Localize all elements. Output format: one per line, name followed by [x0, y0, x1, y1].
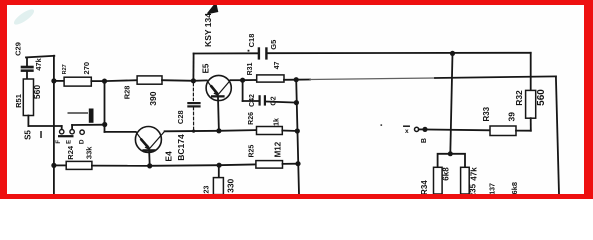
resistor R34: [434, 167, 443, 194]
wire R51 bottom to switch F: [28, 125, 61, 127]
terminal B open circle: [415, 127, 419, 131]
svg-text:BC174: BC174: [176, 134, 186, 161]
wire E4 collector row to E5 emitter node: [165, 130, 219, 133]
node C42 right junction: [294, 100, 299, 105]
svg-text:F: F: [56, 140, 62, 144]
svg-text:KSY 134: KSY 134: [203, 13, 213, 47]
wire long right horizontal east part: [435, 76, 556, 78]
svg-text:560: 560: [32, 85, 42, 99]
wire R27 left stub: [54, 80, 64, 82]
node bottom wire R23 junction: [217, 163, 222, 168]
node C28 on collector wire: [192, 130, 195, 133]
node R31 right junction: [294, 77, 299, 82]
wire middle vertical rail x=104.5: [104, 81, 106, 132]
wire right-bottom rail: [556, 76, 559, 194]
wire R28 right to E5 base node: [162, 79, 193, 82]
svg-text:E: E: [67, 140, 73, 144]
border frame left: [0, 0, 7, 199]
resistor R27: [64, 77, 91, 86]
wire top wire corner down to E5 base node: [192, 54, 194, 81]
wire long right horizontal from R31 node: [296, 79, 310, 81]
svg-text:R33: R33: [482, 106, 491, 121]
svg-text:6k8: 6k8: [442, 167, 451, 181]
capacitor C29: [21, 66, 34, 72]
resistor R32: [526, 90, 536, 118]
node bottom-left junction: [51, 163, 56, 168]
svg-text:39: 39: [507, 112, 517, 122]
svg-text:390: 390: [148, 91, 158, 105]
wire top-left from C29 top to left rail: [26, 56, 54, 58]
svg-text:137: 137: [490, 183, 497, 195]
resistor R25: [256, 161, 283, 169]
wire rail from top node down to R34 R35: [450, 53, 452, 153]
capacitor C28 dashed bottom lead: [193, 107, 195, 130]
node R34 R35 branch junction: [448, 151, 453, 156]
wire E5 emitter lead: [217, 98, 220, 131]
svg-text:C29: C29: [13, 42, 22, 56]
wire R25 right stub: [283, 163, 299, 165]
svg-text:C42: C42: [249, 94, 256, 107]
svg-text:R34: R34: [420, 180, 429, 195]
resistor R51: [23, 79, 33, 116]
wire R24 to E4 emitter node: [92, 165, 150, 167]
svg-text:G5: G5: [269, 40, 278, 50]
svg-text:R24: R24: [66, 145, 75, 160]
wire R32 top rail: [530, 53, 532, 91]
transistor E4: [135, 127, 164, 153]
wire E4 emitter lead: [148, 152, 151, 166]
wire branch to R34: [438, 154, 451, 168]
svg-text:D: D: [79, 139, 86, 144]
resistor R33: [490, 126, 516, 136]
wire top horizontal to C18: [194, 52, 258, 54]
node E4 emitter junction: [147, 163, 152, 168]
capacitor C28: [187, 102, 200, 108]
wire R23 stub: [218, 165, 220, 177]
wire R31 right stub: [284, 79, 296, 81]
node terminal B dot: [422, 127, 427, 132]
wire B terminal to R33: [419, 128, 490, 131]
svg-text:1k: 1k: [274, 118, 281, 126]
svg-text:47: 47: [274, 62, 281, 70]
wire R31 left stub: [243, 79, 257, 81]
C18 polarity dot: [248, 50, 250, 52]
svg-text:33k: 33k: [85, 146, 94, 159]
svg-text:560: 560: [536, 89, 547, 106]
svg-text:R31: R31: [247, 62, 254, 75]
resistor R31: [257, 75, 284, 82]
wire R25 left stub: [219, 163, 256, 166]
svg-text:270: 270: [82, 62, 91, 75]
wire C42 left stub: [243, 100, 259, 102]
switch S5 bridge bar: [58, 135, 74, 137]
wire E contact to E4 base rail: [72, 124, 105, 126]
wire E5 collector down to C42: [242, 80, 244, 101]
wire C29 to R51: [26, 72, 28, 79]
wire left vertical rail x=54: [53, 56, 55, 194]
resistor R24: [66, 161, 92, 169]
border frame bottom: [0, 194, 593, 199]
node switch E wire junction: [102, 122, 107, 127]
svg-text:M12: M12: [274, 141, 283, 157]
node R27 left junction: [51, 78, 56, 83]
capacitor C42: [259, 95, 267, 105]
border frame top: [0, 0, 593, 5]
wire top from C18 to R32 corner: [267, 52, 530, 54]
node R27 right junction: [102, 79, 107, 84]
wire right rail x=297 down: [296, 80, 299, 194]
switch S5 contact F: [60, 130, 64, 134]
transistor E5: [206, 75, 231, 100]
capacitor C18: [258, 47, 268, 59]
wire E contact stub: [71, 125, 73, 130]
wire E5 collector lead: [230, 79, 242, 81]
node top rail junction to R34 R35: [450, 51, 455, 56]
resistor R35: [461, 167, 470, 194]
wire R28 left stub: [105, 79, 138, 82]
svg-text:x: x: [405, 128, 409, 135]
wire long right horizontal faint middle: [310, 78, 435, 80]
switch S5 actuator bar: [89, 109, 94, 123]
svg-text:C18: C18: [247, 34, 256, 48]
svg-text:E5: E5: [202, 63, 211, 73]
svg-text:I: I: [40, 130, 43, 141]
switch S5 contact D: [80, 130, 84, 134]
svg-text:R25: R25: [249, 145, 256, 158]
svg-text:47k: 47k: [470, 167, 479, 181]
wire E5 base lead: [193, 79, 206, 81]
svg-text:S5: S5: [23, 130, 32, 140]
resistor R28: [137, 76, 162, 84]
wire R32 bottom stub: [530, 118, 532, 131]
node R26 right junction: [295, 128, 300, 133]
svg-text:R27: R27: [62, 64, 68, 74]
wire R27 right stub: [91, 80, 104, 82]
node E5 collector junction: [240, 78, 245, 83]
svg-text:6k8: 6k8: [510, 182, 519, 195]
node E4 collector / E5 emitter junction: [216, 128, 221, 133]
switch S5 actuator link: [68, 112, 87, 114]
svg-text:330: 330: [225, 178, 235, 192]
wire E4 base lead: [105, 131, 136, 133]
node E5 base junction: [191, 78, 196, 83]
svg-text:B: B: [421, 138, 428, 143]
resistor R23: [213, 178, 223, 195]
wire bottom-left to R24: [54, 164, 66, 166]
wire R26 left stub: [219, 129, 257, 132]
resistor R26: [257, 127, 283, 135]
wire branch to R35: [450, 154, 465, 168]
wire R26 right stub: [282, 130, 297, 133]
wire C42 right stub: [266, 102, 297, 103]
svg-text:R32: R32: [514, 90, 524, 106]
smudge top-left: [12, 7, 36, 27]
svg-text:C28: C28: [176, 110, 185, 124]
capacitor C28 dashed top lead: [192, 83, 194, 100]
svg-text:R28: R28: [122, 86, 131, 100]
svg-text:R51: R51: [14, 94, 23, 108]
svg-text:47k: 47k: [34, 57, 43, 70]
speck: [381, 124, 383, 126]
switch S5 contact E: [70, 130, 74, 134]
svg-text:E4: E4: [164, 151, 174, 162]
svg-text:R26: R26: [248, 112, 255, 125]
wire C29 top stub: [26, 57, 28, 66]
wire F contact stub: [61, 126, 63, 130]
node R25 right junction: [295, 161, 300, 166]
border frame right: [584, 0, 593, 199]
wire R51 bottom stub: [27, 116, 29, 127]
wire R33 right to R32 rail: [516, 130, 531, 132]
wire bottom row to R23 node: [150, 164, 219, 167]
